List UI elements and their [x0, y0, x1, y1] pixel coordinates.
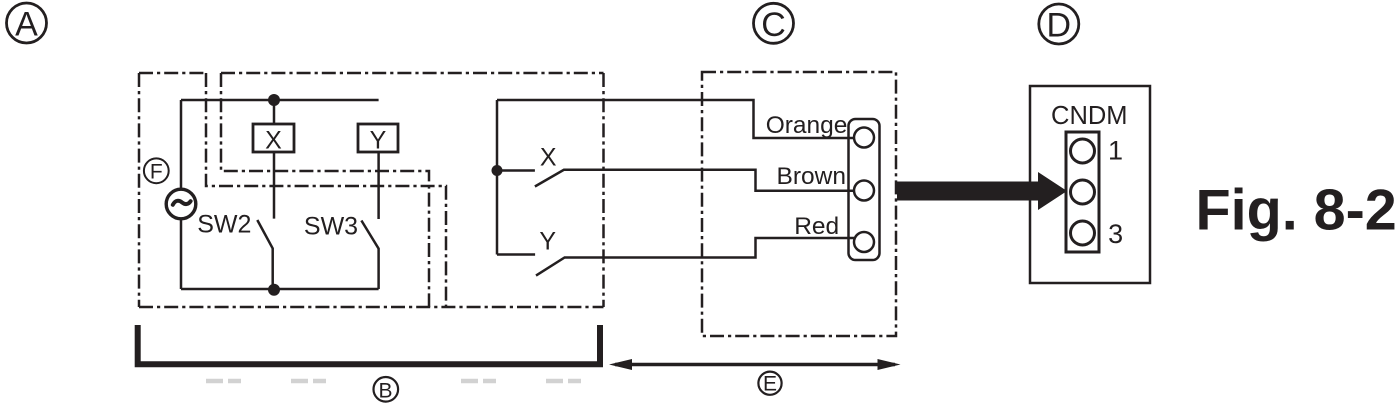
svg-text:3: 3: [1108, 219, 1123, 249]
svg-text:Red: Red: [794, 213, 839, 240]
svg-text:Fig. 8-2: Fig. 8-2: [1196, 178, 1397, 242]
svg-text:CNDM: CNDM: [1051, 102, 1128, 130]
svg-text:Orange: Orange: [766, 112, 848, 139]
svg-text:F: F: [150, 160, 163, 183]
svg-text:SW3: SW3: [304, 212, 358, 240]
svg-text:E: E: [763, 373, 777, 396]
svg-text:D: D: [1047, 7, 1072, 45]
svg-text:A: A: [15, 6, 38, 44]
svg-text:Brown: Brown: [777, 163, 846, 190]
svg-text:SW2: SW2: [197, 211, 251, 239]
svg-text:Y: Y: [539, 228, 556, 256]
svg-text:X: X: [540, 144, 557, 172]
svg-text:Y: Y: [370, 127, 387, 155]
svg-text:X: X: [265, 127, 282, 155]
svg-text:B: B: [378, 380, 392, 403]
svg-text:C: C: [761, 6, 786, 44]
svg-text:1: 1: [1108, 136, 1123, 166]
